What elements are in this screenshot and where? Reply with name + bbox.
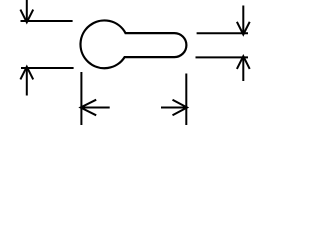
extension line: circle top tangent — [21, 20, 73, 22]
keyhole slot outline — [81, 20, 187, 68]
dimension arrow: right arrow at bottom — [161, 100, 187, 116]
extension line: slot bottom tangent — [196, 56, 249, 58]
dimension arrow: down arrow at circle top — [20, 0, 33, 22]
extension line: vertical at slot right tangent — [185, 74, 187, 126]
dimension arrow: left arrow at bottom — [81, 100, 110, 116]
extension line: slot top tangent — [197, 32, 248, 34]
extension line: circle bottom tangent — [21, 67, 74, 69]
dimension arrow: up arrow at slot bottom — [237, 56, 250, 81]
extension line: vertical at circle left tangent — [80, 72, 82, 125]
dimension arrow: down arrow at slot top — [237, 6, 250, 35]
dimension arrow: up arrow at circle bottom — [20, 67, 33, 96]
